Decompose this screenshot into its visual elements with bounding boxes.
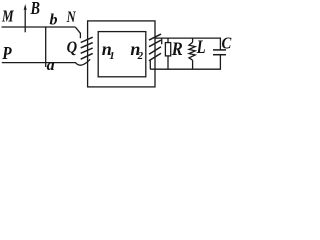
svg-text:P: P — [1, 43, 12, 63]
arrow B shaft — [24, 8, 26, 32]
svg-text:C: C — [222, 33, 232, 52]
wire secondary top — [154, 38, 220, 50]
svg-text:B: B — [30, 0, 40, 18]
svg-text:L: L — [196, 37, 206, 58]
svg-text:1: 1 — [109, 50, 115, 62]
inductor L top lead — [192, 38, 194, 42]
svg-text:b: b — [50, 11, 58, 28]
svg-text:N: N — [66, 9, 77, 26]
transformer core outer rectangle — [88, 21, 155, 87]
svg-text:Q: Q — [67, 38, 78, 57]
transformer core inner rectangle — [98, 32, 146, 77]
capacitor C top plate — [213, 49, 226, 51]
wire slant from N end to primary coil — [75, 27, 80, 33]
resistor R bottom lead — [167, 56, 169, 69]
svg-text:M: M — [1, 7, 14, 26]
wire arc from rail Q to primary coil bottom — [75, 59, 90, 65]
svg-text:R: R — [171, 39, 183, 60]
secondary coil n2 top stub — [161, 38, 163, 44]
rod ab — [45, 26, 47, 67]
arrow B head — [24, 4, 27, 10]
resistor R body — [165, 43, 170, 56]
secondary coil n2 hatch turns — [149, 34, 161, 40]
wire secondary bottom — [150, 55, 220, 69]
inductor L bottom lead — [192, 60, 194, 69]
inductor L zigzag body — [189, 42, 195, 60]
wire top rail MN — [2, 26, 76, 28]
resistor R top lead — [167, 38, 169, 43]
secondary coil n2 bottom stub — [149, 61, 151, 69]
capacitor C bottom plate — [213, 54, 226, 56]
primary coil n1 hatch turns — [81, 37, 93, 42]
primary coil n1 top stub — [79, 33, 81, 38]
svg-text:a: a — [47, 57, 55, 74]
svg-text:2: 2 — [137, 50, 144, 62]
wire bottom rail PQ — [2, 62, 76, 64]
